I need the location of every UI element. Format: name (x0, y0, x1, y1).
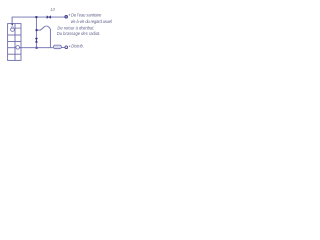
svg-text:Du brassage des radiat.: Du brassage des radiat. (57, 31, 100, 36)
valve V1 horizontal bowtie (47, 16, 51, 19)
wire vertical riser (35, 17, 37, 48)
pipe hook curve (40, 26, 50, 30)
svg-text:vis-à-vis du regard usuel: vis-à-vis du regard usuel (71, 19, 112, 24)
tank body (8, 24, 21, 61)
tank shelf 1 (8, 34, 21, 36)
tank shelf 4 (8, 53, 21, 55)
arrow into tank (11, 23, 14, 26)
tank shelf 2 (8, 41, 21, 43)
bullet dot 2 (69, 46, 70, 47)
wire row3 pipe (19, 46, 64, 48)
wire row2 stub (37, 29, 41, 31)
gauge circle in tank top-left (11, 28, 15, 32)
tank middle divider (14, 24, 16, 61)
node junction middle (36, 29, 38, 31)
wire top supply pipe (12, 17, 65, 24)
bullet dot 1 (69, 14, 70, 15)
wire drop from hook (49, 29, 51, 48)
terminator circle row3 (65, 46, 68, 49)
pump circle on tank outlet (16, 46, 20, 50)
tank shelf 3 (8, 47, 21, 49)
terminator circle row1 (65, 15, 68, 18)
filter capsule (53, 45, 61, 49)
svg-text:De retour à distribut.: De retour à distribut. (57, 25, 94, 30)
svg-text:10: 10 (50, 7, 56, 12)
gauge notch (12, 27, 14, 28)
svg-text:Distrib.: Distrib. (71, 44, 84, 49)
node junction bottom (36, 47, 38, 49)
tank shelf right top (15, 27, 21, 29)
valve V2 vertical bowtie (35, 38, 38, 42)
svg-text:De l’eau sanitaire: De l’eau sanitaire (71, 12, 102, 17)
node junction top (35, 16, 37, 18)
